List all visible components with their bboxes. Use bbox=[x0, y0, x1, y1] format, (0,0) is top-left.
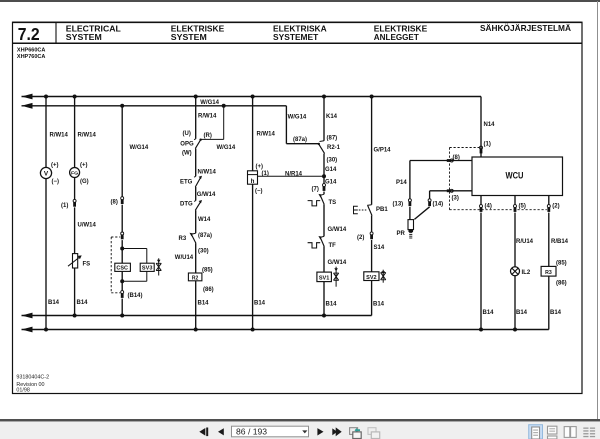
svg-text:86 / 193: 86 / 193 bbox=[236, 427, 267, 437]
